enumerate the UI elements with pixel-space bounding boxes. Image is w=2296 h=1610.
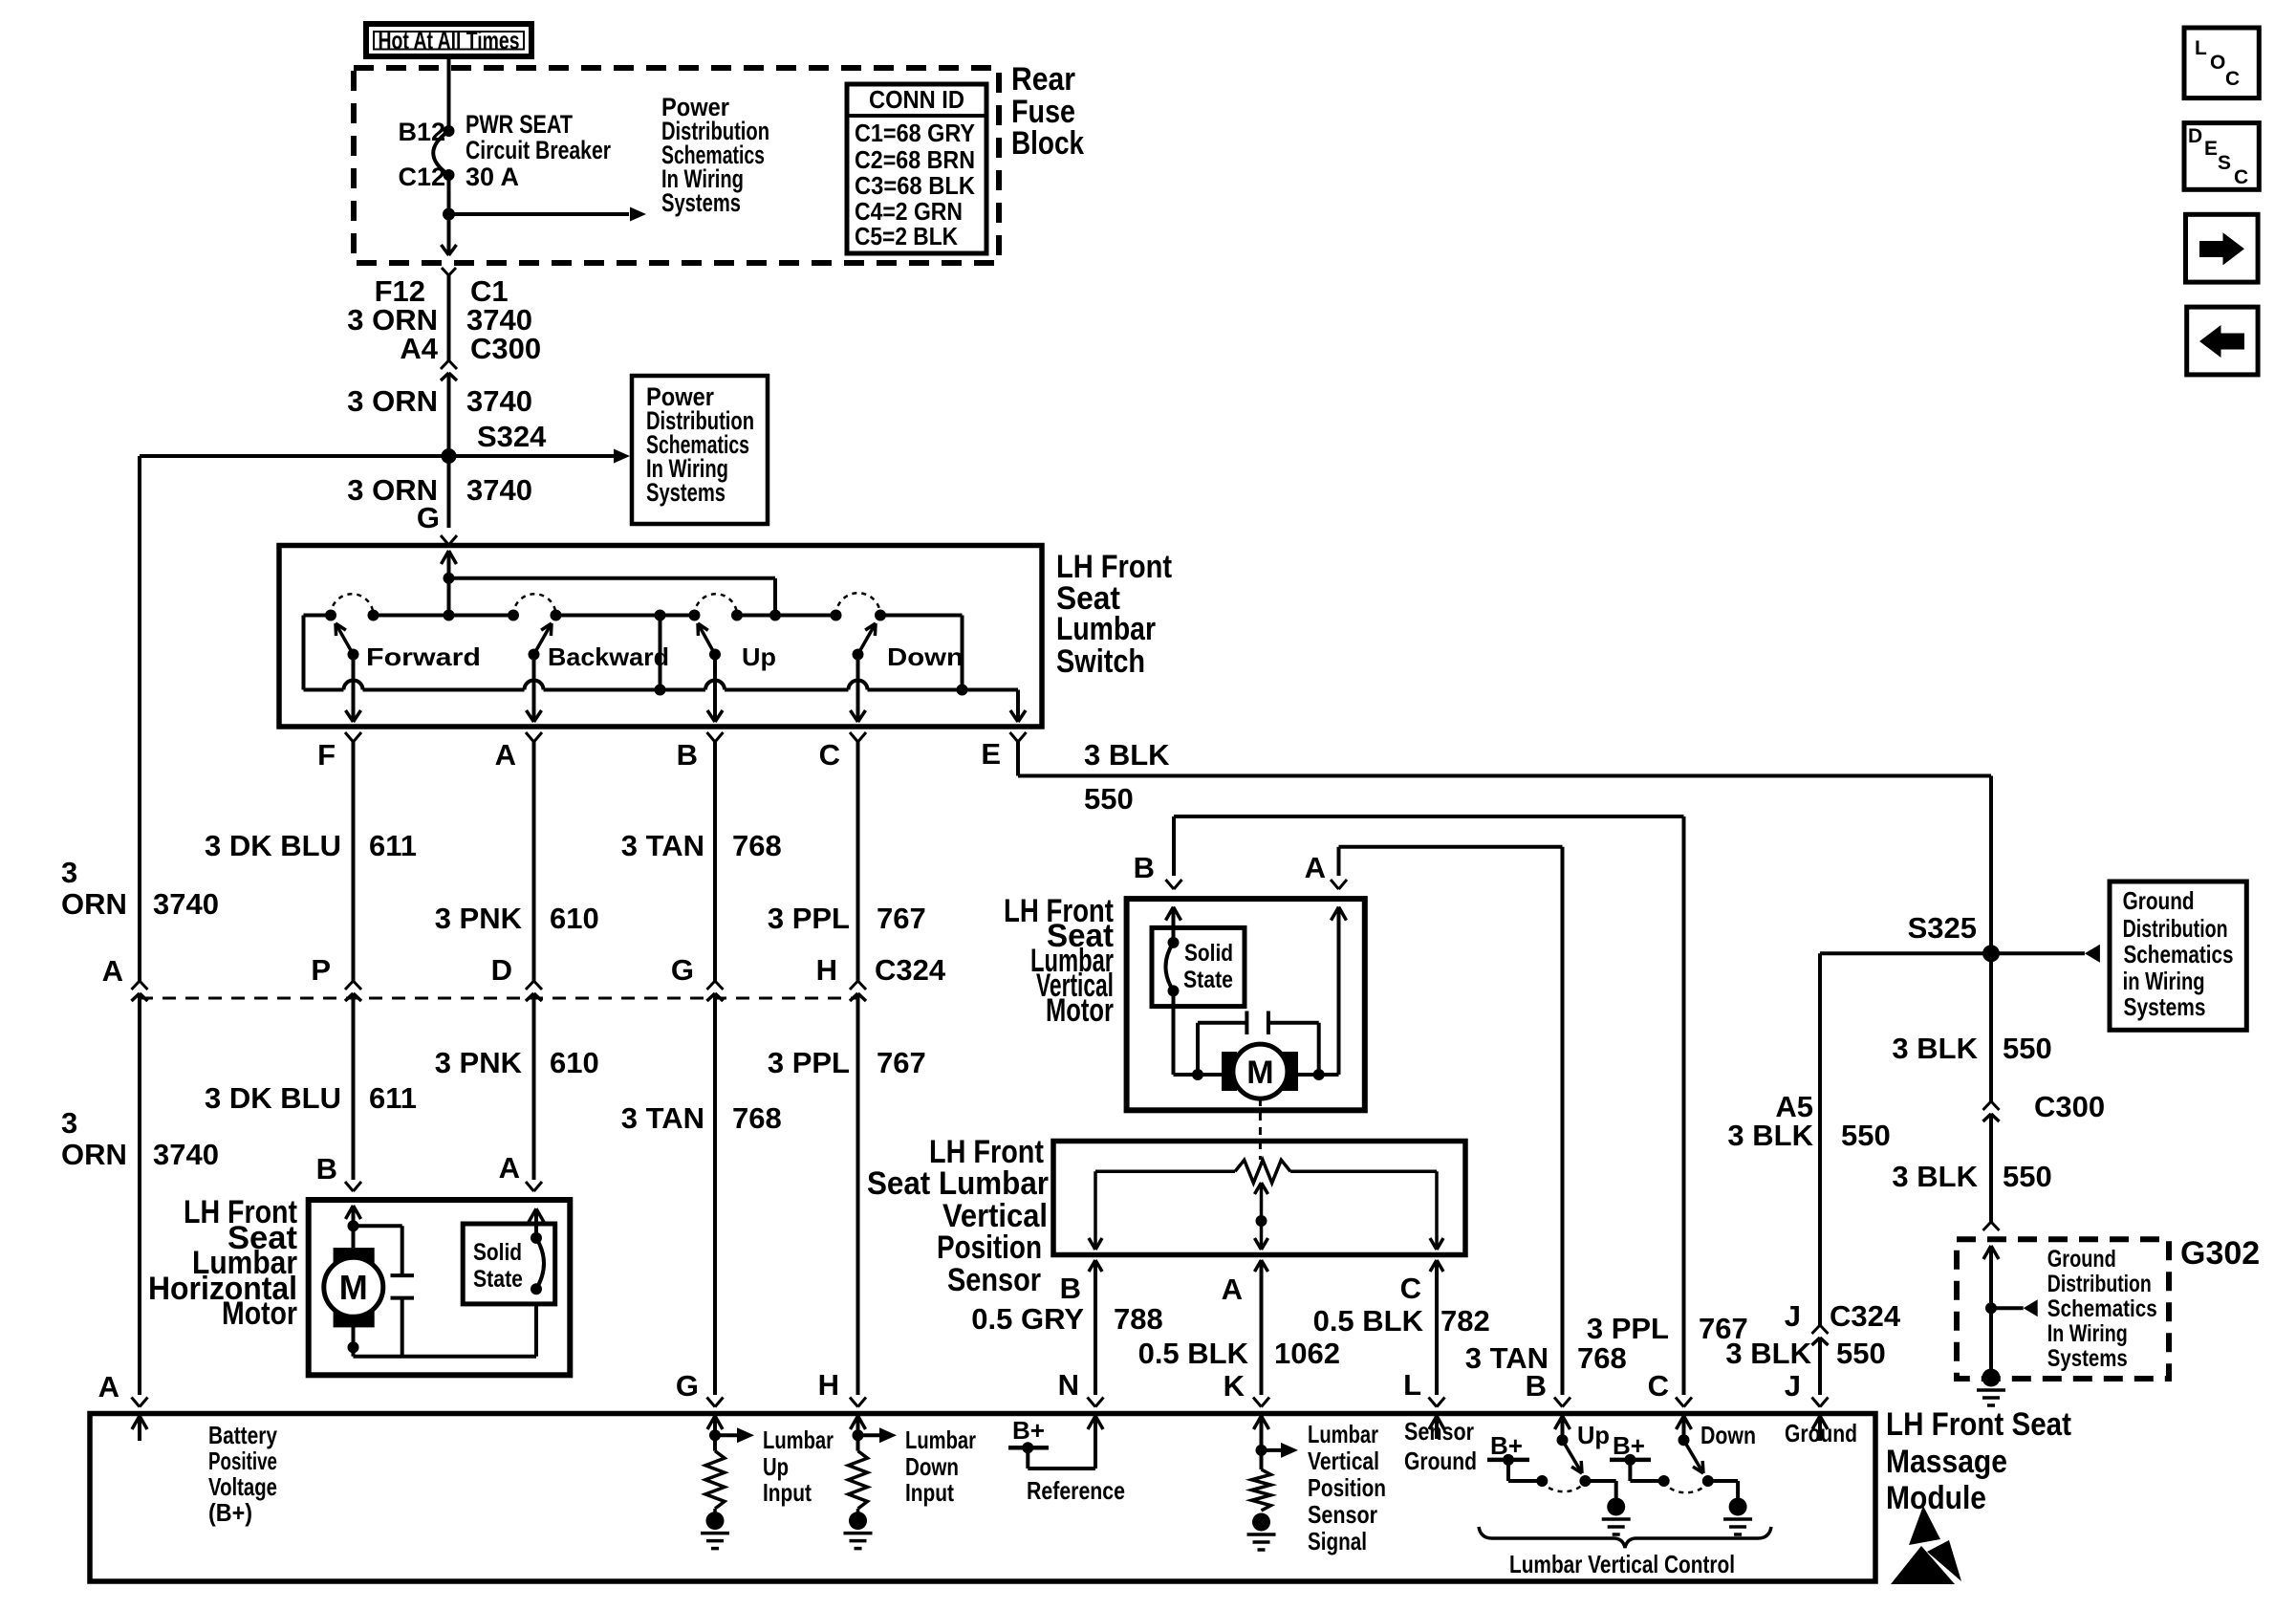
svg-text:768: 768 bbox=[1577, 1341, 1627, 1375]
svg-text:782: 782 bbox=[1440, 1304, 1490, 1338]
svg-text:H: H bbox=[816, 953, 837, 987]
motor M (vertical): brushes and armature bbox=[1222, 1052, 1237, 1091]
svg-text:3 DK BLU: 3 DK BLU bbox=[205, 1081, 341, 1115]
svg-text:A: A bbox=[98, 1370, 119, 1403]
wire: Up switch to ground bbox=[1585, 1479, 1615, 1483]
svg-text:550: 550 bbox=[2003, 1032, 2052, 1065]
svg-text:3740: 3740 bbox=[466, 473, 532, 507]
svg-text:G: G bbox=[417, 501, 440, 534]
svg-text:3 PPL: 3 PPL bbox=[1587, 1312, 1669, 1345]
svg-text:C: C bbox=[1400, 1272, 1421, 1305]
module pin C: lumbar vertical down control bbox=[1677, 1416, 1684, 1429]
module pin G: lumbar up input bbox=[707, 1416, 715, 1429]
svg-text:A5: A5 bbox=[1775, 1090, 1813, 1123]
wire: down right contact to return bus drop bbox=[880, 614, 963, 618]
svg-text:C: C bbox=[2225, 68, 2240, 90]
circuit breaker CB: PWR SEAT 30 A (pins B12/C12) bbox=[444, 125, 455, 137]
wire: vertical motor pin A elbow to 3 TAN run bbox=[1337, 847, 1341, 876]
svg-text:E: E bbox=[981, 737, 1001, 771]
module pin B: lumbar vertical up control bbox=[1555, 1416, 1563, 1429]
ground symbol G302 bbox=[1982, 1369, 2001, 1387]
svg-text:L: L bbox=[2195, 37, 2207, 59]
svg-text:Distribution: Distribution bbox=[2123, 914, 2228, 943]
svg-text:B: B bbox=[677, 738, 698, 772]
svg-text:M: M bbox=[1246, 1055, 1273, 1091]
wire: motor B lead inside bbox=[346, 1206, 354, 1219]
wire: Down pivot to switch pin C bbox=[856, 655, 860, 723]
potentiometer element (position sensor) bbox=[1095, 1170, 1235, 1174]
switch Backward: pivot and blade bbox=[529, 649, 540, 661]
svg-text:Solid: Solid bbox=[1184, 940, 1233, 967]
resistor: lumbar up input pull-down bbox=[705, 1451, 725, 1509]
svg-text:Lumbar: Lumbar bbox=[905, 1425, 976, 1454]
svg-text:C5=2 BLK: C5=2 BLK bbox=[855, 222, 958, 250]
wire: 3 BLK 550 from C324 J to module J input bbox=[1818, 1351, 1822, 1395]
module pin L: sensor ground bbox=[1429, 1416, 1437, 1429]
svg-text:PWR SEAT: PWR SEAT bbox=[466, 110, 573, 139]
svg-text:Signal: Signal bbox=[1308, 1527, 1367, 1556]
node: switch feed junction bbox=[444, 573, 455, 584]
svg-text:A: A bbox=[1305, 851, 1326, 884]
svg-text:L: L bbox=[1403, 1368, 1421, 1402]
svg-text:G302: G302 bbox=[2180, 1235, 2260, 1272]
wire: motor bottom to solid state return bbox=[352, 1327, 356, 1357]
svg-text:Reference: Reference bbox=[1027, 1476, 1125, 1505]
svg-text:C1=68 GRY: C1=68 GRY bbox=[855, 119, 975, 147]
svg-text:Up: Up bbox=[763, 1452, 789, 1481]
svg-text:P: P bbox=[311, 953, 331, 987]
inline connector at G302 boundary bbox=[1983, 1222, 1992, 1230]
svg-text:768: 768 bbox=[732, 829, 782, 862]
svg-text:Lumbar: Lumbar bbox=[1056, 611, 1156, 647]
wire: 0.5 GRY 788 sensor B to module N bbox=[1089, 1260, 1095, 1272]
svg-text:Lumbar: Lumbar bbox=[1308, 1420, 1378, 1448]
icon: next page arrow bbox=[2186, 214, 2259, 282]
wire: Up pivot to switch pin B bbox=[713, 655, 717, 723]
svg-text:Vertical: Vertical bbox=[1308, 1447, 1379, 1475]
switch Down: contacts bbox=[831, 610, 842, 621]
reference box: Power Distribution Schematics In Wiring Systems bbox=[632, 376, 768, 524]
svg-text:B12: B12 bbox=[398, 118, 445, 146]
svg-text:A4: A4 bbox=[400, 332, 438, 365]
svg-text:Systems: Systems bbox=[661, 188, 741, 217]
svg-text:Lumbar: Lumbar bbox=[763, 1425, 834, 1454]
resistor: lumbar down input pull-down bbox=[849, 1451, 868, 1509]
component box: LH Front Seat Lumbar Switch bbox=[279, 546, 1042, 728]
svg-text:Backward: Backward bbox=[548, 642, 669, 671]
wire: Down switch to ground bbox=[1708, 1479, 1738, 1483]
wire: motor B lead into solid state bbox=[1166, 907, 1174, 921]
svg-text:Ground: Ground bbox=[1404, 1447, 1477, 1475]
svg-text:Input: Input bbox=[763, 1478, 812, 1507]
wire: 3 PPL 767 from pin C to C324 pin H bbox=[856, 742, 860, 981]
wire: 0.5 BLK 1062 sensor A to module K bbox=[1255, 1260, 1262, 1272]
svg-text:3: 3 bbox=[61, 856, 77, 889]
svg-text:S: S bbox=[2218, 152, 2231, 174]
component box: LH Front Seat Massage Module bbox=[90, 1414, 1875, 1582]
wire: 3 ORN 3740 (C300 to S324) bbox=[447, 373, 451, 456]
svg-text:3 BLK: 3 BLK bbox=[1727, 1119, 1813, 1152]
wire: 3 DK BLU 611 below C324 to horizontal motor B bbox=[352, 1007, 356, 1180]
svg-text:550: 550 bbox=[2003, 1160, 2052, 1193]
ground inside module (K) bbox=[1252, 1513, 1270, 1532]
connector C1 pin F12 bbox=[442, 268, 449, 275]
wire: 3 ORN 3740 (S324 down to switch pin G) bbox=[447, 456, 451, 528]
svg-text:G: G bbox=[671, 953, 694, 987]
svg-text:610: 610 bbox=[550, 902, 599, 935]
solid state element (vertical motor) bbox=[1168, 937, 1180, 948]
wire: G302 to Ground Distribution reference bbox=[1991, 1306, 2024, 1310]
solid state control box (horizontal motor) bbox=[463, 1224, 555, 1304]
svg-text:LH Front Seat: LH Front Seat bbox=[1886, 1406, 2071, 1443]
capacitor branch (vertical motor) bbox=[1196, 1023, 1200, 1075]
svg-text:Module: Module bbox=[1886, 1480, 1986, 1516]
svg-text:3 ORN: 3 ORN bbox=[347, 384, 438, 418]
svg-text:3 DK BLU: 3 DK BLU bbox=[205, 829, 341, 862]
svg-text:Systems: Systems bbox=[2047, 1345, 2128, 1372]
B+ source bar (reference) bbox=[1008, 1446, 1049, 1450]
CONN ID table bbox=[847, 84, 986, 253]
svg-text:In Wiring: In Wiring bbox=[2047, 1320, 2128, 1347]
svg-text:B+: B+ bbox=[1490, 1431, 1523, 1460]
svg-text:788: 788 bbox=[1114, 1302, 1163, 1336]
svg-text:3 PNK: 3 PNK bbox=[435, 902, 523, 935]
svg-text:767: 767 bbox=[877, 1046, 926, 1079]
svg-text:H: H bbox=[818, 1368, 839, 1402]
wire: 3 ORN 3740 (fuse block to C300) bbox=[447, 275, 451, 360]
wire: 3 PNK 610 below C324 to horizontal motor A bbox=[532, 1007, 536, 1180]
svg-text:S324: S324 bbox=[477, 420, 547, 453]
wire: up right contact through feed to down left contact bbox=[737, 614, 836, 618]
switch Backward: contacts bbox=[508, 610, 519, 621]
wire: ground lead inside G302 bbox=[1983, 1246, 1991, 1259]
wire: 3 PNK 610 from pin A to C324 pin D bbox=[532, 742, 536, 981]
wire: sensor element right leg to pin C bbox=[1435, 1171, 1439, 1250]
svg-text:Circuit Breaker: Circuit Breaker bbox=[466, 136, 611, 164]
svg-text:0.5 BLK: 0.5 BLK bbox=[1138, 1337, 1249, 1370]
svg-text:B: B bbox=[316, 1152, 337, 1186]
wire: Backward pivot to switch pin A bbox=[532, 655, 536, 723]
svg-text:611: 611 bbox=[369, 829, 417, 862]
svg-text:3740: 3740 bbox=[466, 384, 532, 418]
wire: 0.5 BLK 782 sensor C to module L bbox=[1430, 1260, 1437, 1272]
svg-text:C: C bbox=[1648, 1369, 1669, 1403]
svg-text:O: O bbox=[2210, 52, 2225, 74]
ground inside module (down control) bbox=[1729, 1498, 1747, 1516]
svg-text:Distribution: Distribution bbox=[2047, 1271, 2152, 1297]
svg-text:J: J bbox=[1785, 1299, 1801, 1333]
component box: LH Front Seat Lumbar Vertical Position Sensor bbox=[1053, 1142, 1465, 1255]
svg-text:C: C bbox=[2234, 166, 2248, 188]
svg-text:Seat Lumbar: Seat Lumbar bbox=[867, 1165, 1049, 1202]
svg-text:B+: B+ bbox=[1613, 1431, 1645, 1460]
icon: previous page arrow bbox=[2187, 307, 2258, 375]
svg-text:550: 550 bbox=[1841, 1119, 1891, 1152]
node: breaker output junction bbox=[443, 208, 455, 221]
svg-text:Down: Down bbox=[887, 642, 964, 671]
wire: motor right brush to pin A bbox=[1298, 1073, 1339, 1077]
svg-text:B: B bbox=[1134, 851, 1155, 884]
Rear Fuse Block dashed enclosure bbox=[354, 68, 999, 263]
svg-text:A: A bbox=[495, 738, 516, 772]
svg-text:State: State bbox=[473, 1266, 523, 1293]
svg-text:3 BLK: 3 BLK bbox=[1892, 1160, 1978, 1193]
svg-text:B+: B+ bbox=[1012, 1416, 1045, 1445]
svg-text:Ground: Ground bbox=[2123, 886, 2195, 915]
svg-text:3 TAN: 3 TAN bbox=[621, 1101, 704, 1135]
svg-text:E: E bbox=[2204, 138, 2218, 160]
wire: switch B+ feed inside bbox=[442, 551, 449, 564]
svg-text:ORN: ORN bbox=[61, 1138, 127, 1171]
ground inside module (up control) bbox=[1607, 1498, 1625, 1516]
switch Up contacts and B+ feed bbox=[1536, 1475, 1548, 1487]
svg-text:Down: Down bbox=[905, 1452, 959, 1481]
svg-text:Position: Position bbox=[1308, 1473, 1386, 1502]
wire: feed to up/down contact bus bbox=[449, 577, 776, 580]
wire: 3 BLK 550 from C300 A5 to G302 bbox=[1989, 1127, 1993, 1222]
svg-text:D: D bbox=[491, 953, 512, 987]
wire: sensor element left leg to pin B bbox=[1094, 1171, 1097, 1250]
svg-text:Motor: Motor bbox=[1046, 992, 1114, 1029]
svg-text:Ground: Ground bbox=[2047, 1246, 2116, 1273]
svg-text:C12: C12 bbox=[398, 163, 445, 191]
svg-text:State: State bbox=[1183, 967, 1233, 993]
connector C324 (dashed inline connector row) bbox=[140, 997, 858, 1000]
svg-text:C324: C324 bbox=[1830, 1299, 1901, 1333]
svg-text:550: 550 bbox=[1084, 782, 1134, 816]
wire: solid state to motor pin A bbox=[534, 1208, 538, 1238]
module pin N: reference output bbox=[1088, 1416, 1095, 1429]
switch Forward: contacts bbox=[325, 610, 336, 621]
svg-text:Solid: Solid bbox=[473, 1239, 522, 1266]
wire: S325 branch left to module J input bbox=[1820, 951, 1991, 955]
ground G302 dashed enclosure bbox=[1957, 1239, 2169, 1379]
svg-text:3740: 3740 bbox=[153, 1138, 219, 1171]
svg-text:C3=68 BLK: C3=68 BLK bbox=[855, 171, 975, 200]
switch Up: pivot and blade bbox=[709, 649, 721, 661]
wire: forward right contact to B+ bus to backward left contact bbox=[374, 614, 514, 618]
svg-text:J: J bbox=[1785, 1369, 1801, 1403]
ground inside module (H) bbox=[849, 1512, 867, 1530]
svg-text:Sensor: Sensor bbox=[1308, 1500, 1377, 1529]
wire: backward right contact to ground drop and Up left contact bbox=[556, 614, 695, 618]
svg-text:A: A bbox=[102, 954, 123, 988]
svg-text:Sensor: Sensor bbox=[947, 1262, 1041, 1298]
svg-text:Position: Position bbox=[937, 1229, 1042, 1266]
wire exit arrow at fuse block bottom bbox=[442, 245, 449, 255]
wire: vertical motor pin B elbow from 3 PPL run bbox=[1172, 816, 1176, 876]
switch Down: pivot and blade bbox=[853, 649, 864, 661]
svg-text:M: M bbox=[339, 1268, 368, 1307]
svg-text:C2=68 BRN: C2=68 BRN bbox=[855, 145, 975, 174]
motor M (horizontal): brushes and armature bbox=[334, 1248, 375, 1270]
svg-text:Motor: Motor bbox=[222, 1295, 297, 1332]
component box: LH Front Seat Lumbar Vertical Motor bbox=[1127, 899, 1365, 1110]
wire: arrow to Power Distribution Schematics (top) bbox=[449, 212, 630, 216]
svg-text:C300: C300 bbox=[2034, 1090, 2105, 1123]
module pin J: ground input bbox=[1812, 1416, 1820, 1429]
wire: feed down to forward/backward contact bus bbox=[447, 578, 451, 616]
svg-text:3 BLK: 3 BLK bbox=[1725, 1337, 1811, 1370]
solid state element (horizontal motor) bbox=[531, 1232, 542, 1244]
connector at switch pin G bbox=[441, 535, 449, 545]
wire: 3 BLK 550 from pin E to S325 bbox=[1016, 742, 1020, 776]
svg-text:768: 768 bbox=[732, 1101, 782, 1135]
mechanical link (dashed) motor to position sensor bbox=[1259, 1099, 1262, 1160]
svg-text:610: 610 bbox=[550, 1046, 599, 1079]
svg-text:3: 3 bbox=[61, 1106, 77, 1140]
wire: solid state down to motor brush bbox=[1172, 990, 1176, 1075]
switch Forward: pivot and blade bbox=[348, 649, 359, 661]
svg-text:0.5 BLK: 0.5 BLK bbox=[1313, 1304, 1424, 1338]
svg-text:C300: C300 bbox=[470, 332, 541, 365]
reference box: Ground Distribution Schematics in Wiring Systems bbox=[2110, 881, 2246, 1030]
switch Down (lumbar vertical control): pivot and blade bbox=[1679, 1434, 1690, 1446]
svg-text:Schematics: Schematics bbox=[2047, 1295, 2157, 1322]
svg-text:Systems: Systems bbox=[2124, 992, 2206, 1021]
component box: LH Front Seat Lumbar Horizontal Motor bbox=[309, 1200, 571, 1375]
svg-text:3 BLK: 3 BLK bbox=[1084, 738, 1170, 772]
svg-text:3 TAN: 3 TAN bbox=[621, 829, 704, 862]
svg-text:in Wiring: in Wiring bbox=[2123, 967, 2205, 995]
svg-text:C324: C324 bbox=[875, 953, 946, 987]
svg-text:3 PNK: 3 PNK bbox=[435, 1046, 523, 1079]
svg-text:B: B bbox=[1526, 1369, 1547, 1403]
wire: 3 TAN 768 from pin B to C324 pin G bbox=[713, 742, 717, 981]
wire: battery feed into circuit breaker bbox=[447, 56, 451, 131]
icon: LOC box bbox=[2184, 28, 2259, 98]
svg-text:3 PPL: 3 PPL bbox=[768, 902, 850, 935]
capacitor (motor noise suppression) bbox=[391, 1273, 415, 1277]
label box: Hot At All Times bbox=[366, 24, 531, 56]
wire: forward left contact jog to return bus bbox=[304, 614, 332, 618]
svg-text:30 A: 30 A bbox=[466, 163, 519, 191]
svg-text:Hot At All Times: Hot At All Times bbox=[379, 26, 520, 54]
svg-text:C: C bbox=[819, 738, 840, 772]
wire: 3 TAN 768 below C324 to module G input bbox=[713, 1007, 717, 1395]
svg-text:767: 767 bbox=[877, 902, 926, 935]
svg-text:Ground: Ground bbox=[1785, 1419, 1857, 1447]
svg-text:Positive: Positive bbox=[208, 1447, 277, 1475]
wire: S324 branch left toward module A input bbox=[140, 454, 449, 458]
svg-text:0.5 GRY: 0.5 GRY bbox=[971, 1302, 1084, 1336]
wire: 3 ORN 3740 below C324 to module A bbox=[138, 1007, 141, 1395]
potentiometer wiper to pin A bbox=[1255, 1183, 1262, 1194]
svg-text:Input: Input bbox=[905, 1478, 954, 1507]
svg-text:B: B bbox=[1060, 1272, 1081, 1305]
svg-text:F: F bbox=[317, 738, 336, 772]
wire: S325 to Ground Distribution reference bbox=[1991, 951, 2085, 955]
wire: 3 ORN 3740 left run down to module A input bbox=[138, 456, 141, 981]
svg-text:(B+): (B+) bbox=[208, 1498, 252, 1527]
svg-text:Schematics: Schematics bbox=[2124, 940, 2234, 968]
svg-text:Systems: Systems bbox=[646, 478, 726, 507]
svg-text:3 PPL: 3 PPL bbox=[768, 1046, 850, 1079]
svg-text:1062: 1062 bbox=[1274, 1337, 1340, 1370]
svg-text:Block: Block bbox=[1011, 125, 1084, 162]
svg-text:K: K bbox=[1224, 1369, 1245, 1403]
svg-text:Sensor: Sensor bbox=[1404, 1417, 1474, 1446]
wire: 3 DK BLU 611 from pin F to C324 pin P bbox=[352, 742, 356, 981]
svg-text:Massage: Massage bbox=[1886, 1444, 2007, 1480]
ground inside module (G) bbox=[706, 1512, 725, 1530]
wire: breaker output down to fuse block exit bbox=[447, 175, 451, 254]
svg-text:Switch: Switch bbox=[1056, 643, 1145, 680]
resistor: sensor signal load bbox=[1252, 1469, 1271, 1511]
ESD sensitive device symbol bbox=[1909, 1506, 1940, 1545]
module pin K: position sensor signal input bbox=[1254, 1416, 1262, 1429]
svg-text:Voltage: Voltage bbox=[208, 1472, 277, 1501]
svg-text:ORN: ORN bbox=[61, 887, 127, 921]
module pin H: lumbar down input bbox=[851, 1416, 858, 1429]
svg-text:N: N bbox=[1058, 1368, 1079, 1402]
switch Down contacts and B+ feed bbox=[1658, 1475, 1670, 1487]
svg-text:A: A bbox=[499, 1151, 520, 1185]
switch Up: contacts bbox=[689, 610, 701, 621]
icon: DESC box bbox=[2184, 123, 2259, 190]
svg-text:A: A bbox=[1222, 1273, 1243, 1306]
svg-text:G: G bbox=[676, 1369, 699, 1403]
svg-text:611: 611 bbox=[369, 1081, 417, 1115]
svg-text:Up: Up bbox=[742, 642, 776, 671]
svg-text:CONN ID: CONN ID bbox=[869, 85, 964, 114]
svg-text:S325: S325 bbox=[1908, 911, 1977, 945]
brace: Lumbar Vertical Control group bbox=[1479, 1527, 1771, 1548]
wire: Forward pivot to switch pin F bbox=[352, 655, 356, 723]
svg-text:Down: Down bbox=[1700, 1421, 1756, 1449]
wire: capacitor branch from B lead bbox=[354, 1224, 402, 1228]
wire: common return bus with crossover hops bbox=[304, 688, 344, 692]
wire: return bus to switch pin E bbox=[963, 688, 1019, 692]
svg-text:Lumbar Vertical Control: Lumbar Vertical Control bbox=[1509, 1550, 1735, 1578]
svg-text:Battery: Battery bbox=[208, 1421, 277, 1449]
svg-text:D: D bbox=[2188, 125, 2202, 147]
wire: drop to common return bus bbox=[659, 616, 662, 690]
svg-text:3740: 3740 bbox=[153, 887, 219, 921]
wire: 3 PPL 767 below C324 to module H input bbox=[856, 1007, 860, 1395]
solid state control box (vertical motor) bbox=[1152, 927, 1245, 1006]
svg-text:550: 550 bbox=[1836, 1337, 1886, 1370]
svg-text:3 BLK: 3 BLK bbox=[1892, 1032, 1978, 1065]
switch Up (lumbar vertical control): pivot and blade bbox=[1557, 1434, 1569, 1446]
svg-text:Rear: Rear bbox=[1011, 61, 1075, 98]
wire: S324 branch to Power Distribution Schematics box bbox=[449, 454, 615, 458]
svg-text:Up: Up bbox=[1577, 1421, 1610, 1449]
svg-text:Forward: Forward bbox=[366, 642, 481, 671]
module pin A: battery feed input bbox=[132, 1416, 140, 1429]
